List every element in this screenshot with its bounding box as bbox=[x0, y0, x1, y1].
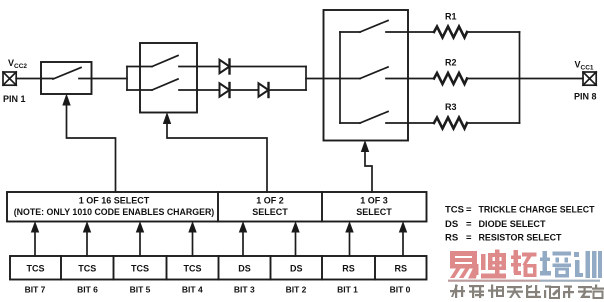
diode D2 (bottom branch, first) bbox=[220, 83, 230, 97]
svg-text:1 OF 2: 1 OF 2 bbox=[256, 196, 284, 206]
register box (select decoder) bbox=[7, 192, 427, 222]
logo glyph 4 bbox=[540, 251, 571, 278]
logo glyph 5 bbox=[574, 251, 602, 278]
switch S5 arm (middle) bbox=[360, 67, 388, 79]
svg-text:TCS: TCS bbox=[445, 205, 464, 216]
diode-select switch box U2 bbox=[140, 43, 197, 113]
wire D1 cathode to junction bar bbox=[230, 66, 307, 68]
svg-text:SELECT: SELECT bbox=[252, 207, 288, 217]
svg-text:RESISTOR SELECT: RESISTOR SELECT bbox=[479, 233, 562, 244]
wire bus to VCC1 terminal bbox=[520, 78, 584, 80]
arrow bit0 to register bbox=[402, 231, 404, 256]
svg-text:TRICKLE CHARGE SELECT: TRICKLE CHARGE SELECT bbox=[479, 205, 595, 216]
wire D3 cathode to junction bar bbox=[269, 89, 307, 91]
wire VCC2 to TCS switch bbox=[16, 78, 53, 80]
wire R3 to right bus bbox=[467, 122, 520, 124]
svg-text:DS: DS bbox=[238, 264, 251, 274]
wire bracket top stub bbox=[127, 66, 152, 68]
watermark underline bbox=[448, 280, 540, 282]
diode D3 (bottom branch, second) bbox=[259, 83, 269, 97]
node junction bar (diode branches merge) bbox=[305, 67, 307, 91]
svg-text:=: = bbox=[466, 205, 472, 216]
terminal VCC2 (pin 1) bbox=[3, 72, 16, 85]
wire bracket bottom stub bbox=[127, 89, 152, 91]
svg-text:TCS: TCS bbox=[78, 264, 96, 274]
logo glyph 2 bbox=[481, 250, 506, 279]
svg-text:DIODE SELECT: DIODE SELECT bbox=[479, 219, 546, 230]
divider 1-of-16 / 1-of-2 bbox=[217, 192, 219, 222]
wire bus top stub bbox=[340, 31, 360, 33]
wire S5 output to R2 bbox=[386, 78, 434, 80]
cell dividers bbox=[61, 256, 375, 280]
svg-text:BIT 5: BIT 5 bbox=[130, 285, 151, 295]
switch S3 arm (bottom) bbox=[152, 79, 178, 90]
switch S2 arm (top) bbox=[152, 56, 178, 67]
wire S1 output to junction bracket bbox=[79, 78, 127, 80]
wire register to U1 (with arrow) bbox=[67, 105, 116, 192]
svg-text:PIN 8: PIN 8 bbox=[574, 92, 597, 102]
resistor R2 bbox=[434, 73, 467, 84]
arrow bit7 to register bbox=[34, 231, 36, 256]
wire S6 output to R3 bbox=[386, 122, 434, 124]
svg-text:BIT 3: BIT 3 bbox=[234, 285, 255, 295]
svg-text:R3: R3 bbox=[445, 102, 457, 112]
svg-text:RS: RS bbox=[395, 264, 408, 274]
logo glyph 3 bbox=[511, 250, 537, 277]
terminal VCC1 (pin 8) bbox=[583, 72, 596, 85]
bit cell row bbox=[10, 256, 427, 280]
node bracket (split to two diode-select switches) bbox=[126, 67, 128, 91]
svg-text:BIT 2: BIT 2 bbox=[286, 285, 307, 295]
resistor R3 bbox=[434, 118, 467, 129]
wire bus bottom stub bbox=[340, 122, 360, 124]
arrow bit4 to register bbox=[192, 231, 194, 256]
svg-text:RS: RS bbox=[445, 233, 458, 244]
svg-text:=: = bbox=[466, 233, 472, 244]
svg-text:TCS: TCS bbox=[131, 264, 149, 274]
svg-text:(NOTE: ONLY 1010 CODE ENABLES: (NOTE: ONLY 1010 CODE ENABLES CHARGER) bbox=[14, 207, 215, 217]
wire register to U2 (with arrow) bbox=[167, 123, 267, 192]
svg-text:DS: DS bbox=[445, 219, 458, 230]
diode D1 (top branch) bbox=[220, 60, 230, 74]
svg-text:1 OF 3: 1 OF 3 bbox=[360, 196, 388, 206]
wire register to U3 (with arrow, jogged) bbox=[365, 151, 372, 192]
wire S2 output to diode D1 bbox=[179, 66, 220, 68]
svg-text:R1: R1 bbox=[445, 12, 457, 22]
logo glyph 1 bbox=[450, 251, 479, 279]
svg-text:BIT 7: BIT 7 bbox=[25, 285, 46, 295]
wire D2 to D3 bbox=[230, 89, 259, 91]
svg-text:R2: R2 bbox=[445, 58, 457, 68]
wire internal bus bbox=[339, 32, 341, 123]
svg-text:BIT 4: BIT 4 bbox=[182, 285, 203, 295]
svg-text:BIT 6: BIT 6 bbox=[77, 285, 98, 295]
svg-text:1 OF 16 SELECT: 1 OF 16 SELECT bbox=[79, 196, 150, 206]
svg-text:BIT 0: BIT 0 bbox=[390, 285, 411, 295]
svg-text:=: = bbox=[466, 219, 472, 230]
resistor R1 bbox=[434, 27, 467, 38]
svg-text:PIN 1: PIN 1 bbox=[3, 94, 26, 104]
wire R1 to right bus bbox=[467, 31, 520, 33]
svg-text:BIT 1: BIT 1 bbox=[337, 285, 358, 295]
node right bus (resistors merge) bbox=[519, 32, 521, 123]
switch S4 arm (top) bbox=[360, 21, 388, 33]
TCS switch box U1 bbox=[41, 62, 92, 94]
arrow bit3 to register bbox=[242, 231, 244, 256]
resistor-select switch box U3 bbox=[324, 10, 409, 141]
switch S1 arm bbox=[53, 68, 81, 80]
wire S4 output to R1 bbox=[386, 31, 434, 33]
wire junction to resistor-select box bbox=[306, 78, 360, 80]
wire R2 to right bus bbox=[467, 78, 520, 80]
arrow bit6 to register bbox=[86, 231, 88, 256]
divider 1-of-2 / 1-of-3 bbox=[321, 192, 323, 222]
arrow bit1 to register bbox=[349, 231, 351, 256]
svg-text:RS: RS bbox=[342, 264, 355, 274]
wire S3 output to diode D2 bbox=[179, 89, 220, 91]
watermark tagline bbox=[450, 285, 604, 299]
arrow bit5 to register bbox=[139, 231, 141, 256]
switch S6 arm (bottom) bbox=[360, 112, 388, 124]
arrow bit2 to register bbox=[295, 231, 297, 256]
watermark logo (red company mark) bbox=[450, 250, 602, 279]
svg-text:TCS: TCS bbox=[27, 264, 45, 274]
svg-text:TCS: TCS bbox=[184, 264, 202, 274]
svg-text:DS: DS bbox=[290, 264, 303, 274]
svg-text:SELECT: SELECT bbox=[356, 207, 392, 217]
